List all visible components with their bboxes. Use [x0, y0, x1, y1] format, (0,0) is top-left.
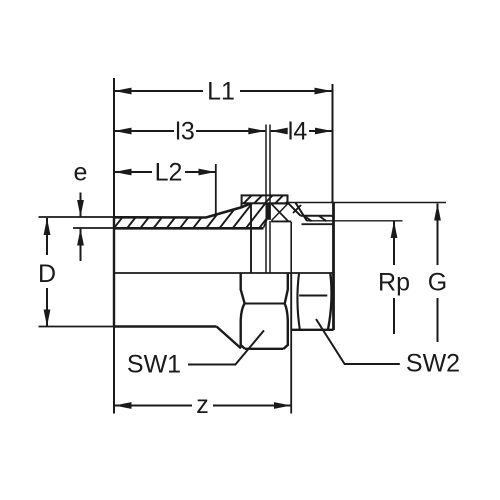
- svg-text:Rp: Rp: [378, 269, 410, 297]
- svg-text:L2: L2: [155, 159, 183, 187]
- svg-text:l4: l4: [288, 118, 308, 146]
- svg-text:e: e: [74, 159, 88, 187]
- svg-text:z: z: [196, 391, 209, 419]
- svg-text:G: G: [428, 269, 447, 297]
- svg-text:SW2: SW2: [406, 350, 460, 378]
- svg-text:L1: L1: [207, 78, 235, 106]
- svg-text:D: D: [38, 260, 56, 288]
- svg-text:SW1: SW1: [127, 351, 181, 379]
- svg-text:l3: l3: [175, 118, 194, 146]
